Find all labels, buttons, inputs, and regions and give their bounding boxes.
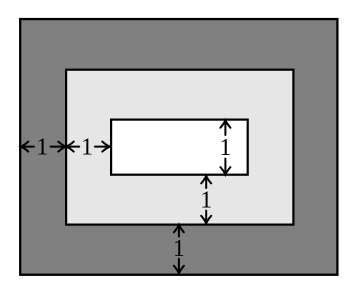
svg-text:1: 1 xyxy=(219,135,231,161)
middle light gray box xyxy=(66,70,293,225)
dimension arrow left margin (dark band) xyxy=(21,142,66,152)
dimension arrow bottom margin (dark band) xyxy=(174,225,184,273)
svg-text:1: 1 xyxy=(200,188,212,214)
svg-text:1: 1 xyxy=(36,134,48,160)
dimension arrow left padding (light band) xyxy=(66,142,110,152)
inner white box xyxy=(111,120,248,175)
dimension arrow white box height xyxy=(220,120,230,174)
svg-text:1: 1 xyxy=(173,236,185,262)
dimension arrow bottom padding (light band) xyxy=(201,176,211,223)
outer dark gray box xyxy=(20,19,337,275)
svg-text:1: 1 xyxy=(81,134,93,160)
